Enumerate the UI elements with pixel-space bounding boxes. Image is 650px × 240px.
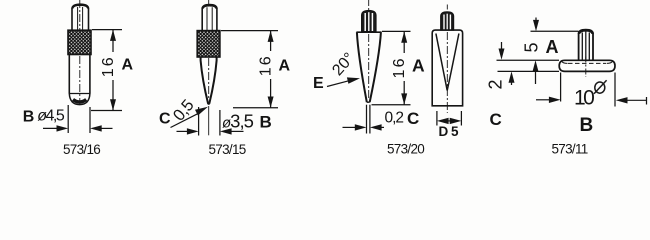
svg-text:573/15: 573/15	[209, 142, 246, 157]
svg-text:16: 16	[100, 55, 117, 77]
svg-text:20°: 20°	[329, 50, 358, 79]
svg-text:ø3,5: ø3,5	[222, 110, 254, 131]
svg-text:573/20: 573/20	[387, 141, 424, 156]
svg-text:A: A	[279, 58, 291, 75]
svg-text:573/16: 573/16	[63, 142, 100, 157]
svg-text:B: B	[580, 115, 594, 136]
svg-text:A: A	[546, 37, 559, 57]
svg-text:D 5: D 5	[439, 124, 460, 139]
svg-text:5: 5	[522, 42, 542, 52]
svg-text:C: C	[407, 109, 419, 128]
svg-text:B: B	[23, 109, 35, 126]
svg-text:0,2: 0,2	[385, 109, 404, 126]
svg-text:573/11: 573/11	[552, 142, 588, 157]
svg-text:E: E	[313, 75, 324, 92]
svg-text:ø4,5: ø4,5	[37, 108, 65, 125]
svg-text:2: 2	[486, 79, 506, 89]
svg-text:B: B	[260, 113, 272, 132]
svg-text:10: 10	[574, 87, 594, 110]
svg-text:A: A	[122, 57, 134, 74]
svg-text:C: C	[490, 110, 502, 129]
svg-text:16: 16	[258, 54, 275, 76]
svg-text:16: 16	[391, 56, 408, 78]
svg-text:A: A	[412, 56, 425, 76]
svg-text:0,5: 0,5	[170, 96, 198, 124]
